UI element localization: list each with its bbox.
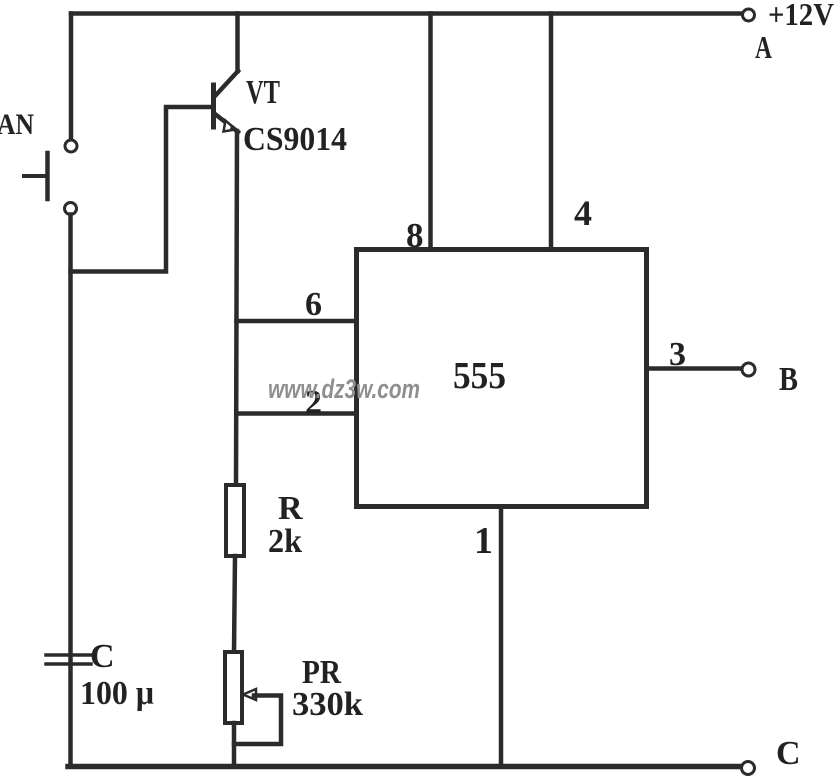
IC U1 555	[357, 250, 647, 507]
capacitor C	[46, 655, 91, 664]
svg-text:AN: AN	[0, 108, 34, 141]
wire pin 6	[237, 319, 357, 324]
svg-text:8: 8	[406, 216, 424, 255]
wire pin 1 to bottom rail	[499, 507, 504, 767]
svg-text:R: R	[278, 490, 303, 527]
svg-text:100 μ: 100 μ	[80, 675, 154, 712]
resistor R	[226, 485, 244, 556]
wire PR bottom to bottom rail	[232, 723, 237, 766]
wire R bottom to PR top	[234, 556, 235, 653]
svg-text:3: 3	[669, 336, 686, 373]
svg-text:1: 1	[474, 520, 493, 562]
wire emitter down to resistor R	[236, 131, 237, 486]
transistor VT CS9014	[214, 71, 239, 132]
svg-text:2k: 2k	[268, 523, 302, 560]
svg-text:A: A	[755, 29, 772, 65]
wire switch bottom to transistor base	[71, 107, 212, 272]
svg-text:6: 6	[305, 286, 322, 323]
svg-text:+12V: +12V	[768, 0, 834, 32]
svg-text:B: B	[779, 361, 798, 398]
wire left vertical from rail to switch	[69, 14, 74, 141]
wire pin 4 to +12V rail	[549, 14, 554, 250]
wire +12V top rail	[71, 11, 742, 16]
terminal C	[742, 762, 755, 775]
potentiometer PR	[225, 652, 256, 723]
wire collector to +12V rail	[235, 14, 240, 72]
wire pin 2	[237, 411, 357, 416]
svg-text:www.dz3w.com: www.dz3w.com	[268, 374, 420, 404]
switch AN pushbutton	[24, 140, 77, 215]
svg-text:555: 555	[453, 355, 506, 397]
wire bottom rail	[68, 764, 741, 770]
svg-text:330k: 330k	[292, 686, 363, 723]
svg-text:VT: VT	[246, 74, 280, 111]
wire pin 3 output	[647, 366, 743, 371]
svg-text:CS9014: CS9014	[243, 121, 347, 158]
svg-text:C: C	[776, 735, 801, 772]
terminal A (+12V)	[743, 9, 755, 21]
terminal B	[742, 363, 755, 376]
wire left vertical below switch to bottom rail	[68, 215, 73, 767]
svg-text:C: C	[90, 638, 115, 675]
wire pin 8 to +12V rail	[428, 14, 433, 250]
wire PR wiper loop	[234, 696, 281, 745]
svg-text:4: 4	[574, 193, 592, 233]
